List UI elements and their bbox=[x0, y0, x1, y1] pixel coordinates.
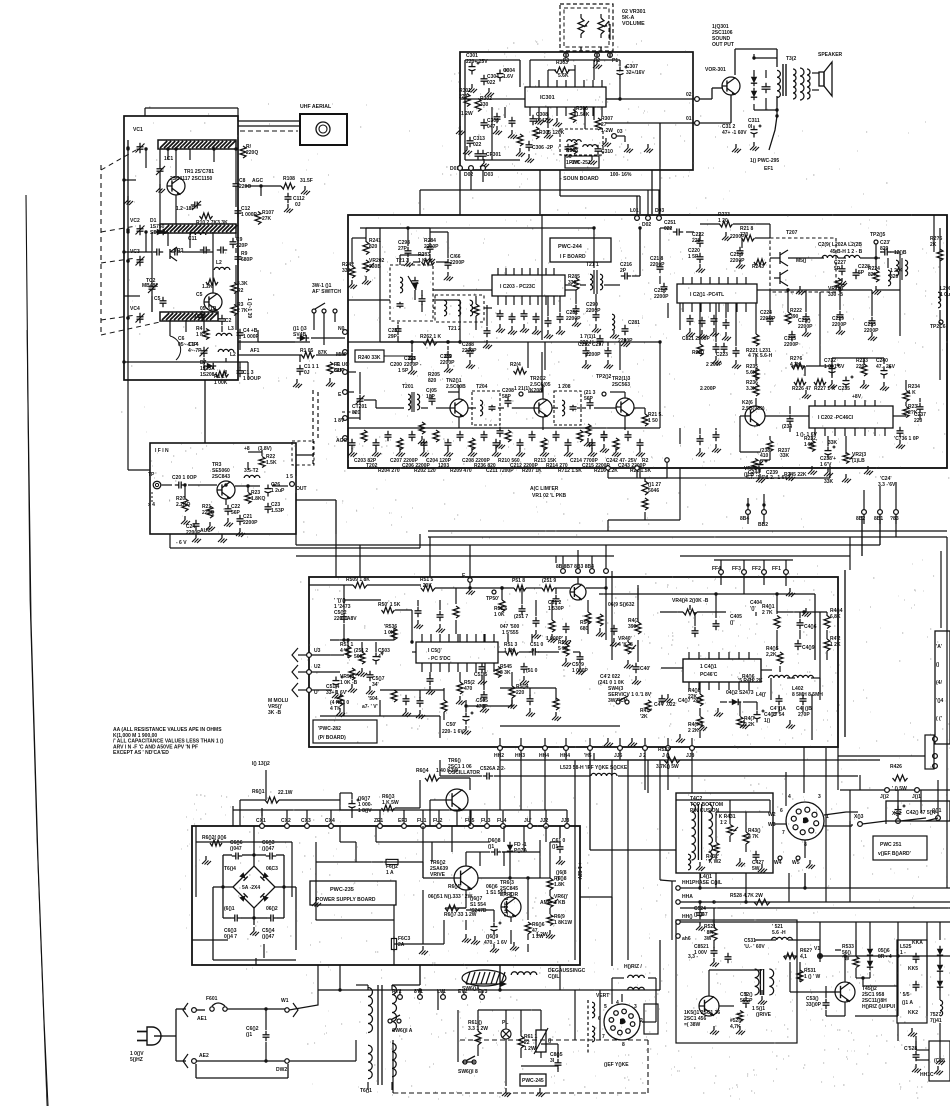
ground C312 bbox=[750, 142, 759, 151]
resistor R519 bbox=[542, 585, 554, 591]
resistor R548 filler bbox=[553, 698, 559, 710]
svg-text:R262 1 K: R262 1 K bbox=[420, 334, 442, 340]
resistor IF bias R213 bbox=[505, 430, 511, 442]
capacitor C228 5P bbox=[853, 269, 860, 279]
capacitor C548 filler bbox=[417, 697, 424, 707]
resistor IF bias R207 bbox=[433, 430, 439, 442]
wire F6C3 bbox=[393, 905, 395, 938]
svg-text:C297: C297 bbox=[592, 342, 604, 348]
svg-text:01: 01 bbox=[686, 116, 692, 122]
ground bottom area bbox=[536, 1088, 545, 1097]
node BY1 bbox=[418, 995, 423, 1000]
svg-text:AF1: AF1 bbox=[250, 348, 260, 354]
svg-text:T204: T204 bbox=[476, 384, 488, 390]
svg-text:I C202 -PC46Cl: I C202 -PC46Cl bbox=[818, 415, 854, 421]
svg-text:8B1: 8B1 bbox=[874, 516, 883, 522]
capacitor IF coupling C223 bbox=[625, 431, 632, 441]
resistor R533 560 1W bbox=[853, 957, 859, 968]
ground cluster sound-left bbox=[468, 84, 477, 93]
capacitor C286 filler bbox=[557, 313, 564, 323]
svg-text:1 00K: 1 00K bbox=[214, 380, 228, 386]
resistor R233b 220 bbox=[861, 364, 867, 376]
ground sound extra bbox=[525, 154, 534, 163]
svg-text:C306 -2P: C306 -2P bbox=[532, 145, 554, 151]
capacitor C230 2200P bbox=[803, 313, 810, 323]
svg-text:2200P: 2200P bbox=[730, 234, 745, 240]
svg-text:(6()1: (6()1 bbox=[224, 906, 235, 912]
svg-text:5()HZ: 5()HZ bbox=[130, 1057, 143, 1063]
svg-text:820: 820 bbox=[890, 274, 899, 280]
node JJ2 bbox=[544, 824, 549, 829]
transistor TR204 bbox=[745, 406, 765, 426]
socket yoke plug bbox=[786, 802, 824, 840]
capacitor C26 1.2uP bbox=[265, 484, 276, 497]
lamp PL bbox=[501, 1029, 511, 1039]
diode D608 01 bbox=[491, 849, 501, 856]
svg-text:1.6V: 1.6V bbox=[503, 74, 514, 80]
capacitor C544 filler bbox=[563, 623, 570, 633]
wire kk bus risers bbox=[897, 940, 899, 1016]
svg-text:1 208: 1 208 bbox=[558, 384, 571, 390]
svg-text:4,1: 4,1 bbox=[800, 954, 807, 960]
transformer T204 (dashed) bbox=[472, 391, 500, 425]
resistor IF bias R222 bbox=[613, 438, 619, 450]
svg-text:()1: ()1 bbox=[488, 844, 494, 850]
resistor R404 6.8K bbox=[824, 616, 830, 629]
ac plug bbox=[137, 1027, 163, 1045]
capacitor IF bypass C221 bbox=[601, 431, 608, 441]
svg-text:W1: W1 bbox=[281, 998, 289, 1004]
node FU1 bbox=[421, 824, 426, 829]
wire preamp bbox=[161, 484, 172, 486]
svg-text:()047: ()047 bbox=[230, 846, 242, 852]
node AGC2 bbox=[343, 436, 348, 441]
node HH3 bbox=[519, 746, 524, 751]
capacitor C501 220-16V bbox=[463, 712, 474, 725]
svg-text:P1: P1 bbox=[612, 58, 618, 64]
svg-text:KK2: KK2 bbox=[908, 1010, 918, 1016]
board outline kk box bbox=[897, 940, 927, 1023]
wire power right link bbox=[580, 896, 612, 898]
wire vert coil bbox=[592, 1002, 595, 1018]
resistor R23 1.8K bbox=[245, 493, 251, 504]
svg-text:TP: TP bbox=[148, 472, 155, 478]
svg-text:R523: R523 bbox=[658, 747, 670, 753]
svg-text:( (': ( (' bbox=[936, 716, 942, 722]
capacitor C237 220 bbox=[917, 403, 924, 413]
node D03 bbox=[481, 166, 486, 171]
capacitor C248 filler bbox=[733, 347, 740, 357]
node E mid bbox=[468, 578, 472, 582]
svg-text:C11: C11 bbox=[188, 236, 197, 242]
svg-text:06()2: 06()2 bbox=[266, 906, 278, 912]
svg-text:FU3: FU3 bbox=[481, 818, 491, 824]
svg-text:R305 120K: R305 120K bbox=[539, 130, 565, 136]
resistor R409 2.2K bbox=[697, 717, 703, 728]
svg-text:R1 05: R1 05 bbox=[300, 348, 314, 354]
resistor R511 4.7K bbox=[345, 646, 351, 658]
resistor R285 330 bbox=[573, 278, 579, 290]
capacitor IF bypass C218 bbox=[565, 439, 572, 449]
svg-text:.01: .01 bbox=[530, 648, 537, 654]
svg-text:2A: 2A bbox=[398, 942, 405, 948]
wire HH bus lines bbox=[680, 887, 950, 889]
potentiometer VR203 OLB bbox=[843, 453, 854, 464]
resistor R518 bbox=[514, 585, 526, 591]
svg-text:- SOUN BOARD: - SOUN BOARD bbox=[560, 176, 599, 182]
board outline pincushion box bbox=[676, 793, 773, 873]
resistor R2 3.3K bbox=[231, 283, 237, 294]
switch SW601B bbox=[463, 1056, 476, 1064]
svg-text:4 'K -8: 4 'K -8 bbox=[618, 642, 633, 648]
svg-text:C4()7 '247: C4()7 '247 bbox=[678, 698, 702, 704]
wire R523 run bbox=[594, 759, 664, 761]
wire right edge verticals bbox=[946, 215, 948, 468]
capacitor C505 470P bbox=[481, 691, 488, 701]
svg-text:33K: 33K bbox=[780, 453, 790, 459]
resistor R3 2.7K bbox=[231, 305, 237, 316]
svg-text:(): () bbox=[548, 1038, 552, 1044]
svg-text:3.3K: 3.3K bbox=[237, 281, 248, 287]
svg-text:58P: 58P bbox=[502, 394, 512, 400]
svg-text:AUC: AUC bbox=[200, 528, 211, 534]
transformer T201 bbox=[408, 394, 411, 410]
svg-text:1 5()1: 1 5()1 bbox=[752, 1006, 765, 1012]
svg-text:()()47: ()()47 bbox=[262, 846, 274, 852]
capacitor IF bypass C215 bbox=[529, 431, 536, 441]
node BB7 bbox=[576, 569, 581, 574]
node FU5 bbox=[469, 824, 474, 829]
capacitor C297 2200P bbox=[597, 335, 604, 345]
svg-text:EF1: EF1 bbox=[764, 166, 773, 172]
svg-text:AF' SWITCH: AF' SWITCH bbox=[312, 289, 341, 295]
resistor R523 3.7K 5W bbox=[664, 757, 680, 763]
svg-text:VOR-301: VOR-301 bbox=[705, 67, 726, 73]
svg-text:FF4: FF4 bbox=[712, 566, 721, 572]
svg-text:TP2()2: TP2()2 bbox=[596, 374, 612, 380]
node U3 bbox=[307, 653, 312, 658]
wire R426 area bbox=[840, 789, 950, 791]
capacitor C112 bbox=[285, 193, 292, 203]
svg-text:U3: U3 bbox=[314, 648, 321, 654]
svg-text:1 20: 1 20 bbox=[718, 218, 728, 224]
transistor TR502 horiz out bbox=[835, 982, 855, 1002]
capacitor C736 10P bbox=[897, 427, 904, 437]
capacitor C410B 270P bbox=[800, 695, 807, 705]
resistor R236 33K bbox=[753, 384, 759, 396]
svg-text:0J: 0J bbox=[304, 370, 310, 376]
resistor R241 820 bbox=[363, 242, 369, 255]
capacitor C303 047 bbox=[481, 119, 488, 129]
svg-text:820: 820 bbox=[369, 244, 378, 250]
wire SW-101 leads bbox=[313, 313, 315, 330]
ground socket bbox=[806, 860, 815, 869]
antenna terminal bbox=[316, 122, 330, 136]
ground bottom row bbox=[604, 738, 613, 747]
node W4 bbox=[778, 856, 782, 860]
wire right col bbox=[549, 842, 551, 878]
svg-text:220Q: 220Q bbox=[202, 510, 214, 516]
svg-text:1 8V: 1 8V bbox=[334, 418, 345, 424]
capacitor IF coupling C211 bbox=[481, 431, 488, 441]
board outline PWC-235 bbox=[192, 826, 580, 965]
node 03 bbox=[612, 134, 617, 139]
svg-text:06()5: 06()5 bbox=[428, 894, 440, 900]
ic IC501 pins bbox=[421, 663, 423, 672]
label board PWC-244 bbox=[550, 238, 611, 262]
capacitor C513 5P bbox=[521, 663, 528, 673]
node BB2r bbox=[862, 510, 867, 515]
transistor TR501 bbox=[699, 996, 719, 1016]
svg-text:1.50K: 1.50K bbox=[576, 112, 590, 118]
svg-text:0047: 0047 bbox=[536, 118, 547, 124]
svg-text:C2(9( L202A L2(2B: C2(9( L202A L2(2B bbox=[818, 242, 862, 248]
svg-text:C20 1 0OP: C20 1 0OP bbox=[172, 475, 197, 481]
resistor R227 1K bbox=[814, 379, 826, 385]
svg-text:C821 2200P: C821 2200P bbox=[682, 336, 710, 342]
svg-text:T21 3: T21 3 bbox=[396, 258, 409, 264]
svg-text:EXCEPT AS ' ND'CA'ED: EXCEPT AS ' ND'CA'ED bbox=[113, 750, 169, 756]
ic U202 (LC202 PC46CL) bbox=[809, 406, 893, 428]
resistor R604 140 K3W bbox=[425, 775, 439, 781]
node EV3 bbox=[480, 995, 485, 1000]
wire gap horiz runs bbox=[296, 555, 556, 557]
svg-text:R6()5: R6()5 bbox=[448, 884, 461, 890]
wire 02 to Q301 bbox=[606, 98, 695, 100]
svg-text:AGC: AGC bbox=[252, 178, 264, 184]
svg-text:1 K 5W: 1 K 5W bbox=[382, 800, 399, 806]
capacitor C293 2200P bbox=[409, 353, 416, 363]
potentiometer VR601 1KB bbox=[547, 897, 558, 908]
capacitor C520 56CP bbox=[743, 997, 750, 1007]
coil L401 phase bbox=[688, 854, 691, 870]
ground power extra bbox=[312, 898, 321, 907]
svg-text:R303: R303 bbox=[556, 60, 568, 66]
svg-text:()RIVE: ()RIVE bbox=[756, 1012, 772, 1018]
svg-text:U2: U2 bbox=[314, 664, 321, 670]
svg-text:()1 A: ()1 A bbox=[902, 1000, 913, 1006]
fet Q201 in T207 bbox=[774, 250, 788, 266]
wire tuner bottom exit bbox=[124, 361, 248, 363]
wire deflection links bbox=[785, 772, 787, 793]
coil L200 bbox=[938, 292, 941, 308]
resistor R262 1K bbox=[423, 339, 437, 345]
test point TP bbox=[153, 481, 161, 489]
ic IC301 pin stubs bbox=[529, 107, 531, 116]
svg-text:390: 390 bbox=[790, 314, 799, 320]
junction dots bottomright bbox=[818, 954, 821, 957]
wire limiter bbox=[607, 470, 609, 478]
node 01 bbox=[695, 121, 700, 126]
capacitor D609 470-16V bbox=[491, 922, 502, 935]
diode FD-1 R07A bbox=[507, 842, 513, 854]
svg-text:OSCILLATOR: OSCILLATOR bbox=[448, 770, 480, 776]
svg-text:1 000P: 1 000P bbox=[243, 334, 260, 340]
transformer T503 drive bbox=[755, 969, 774, 995]
potentiometer R431 bbox=[727, 825, 738, 836]
svg-text:2200P: 2200P bbox=[730, 258, 745, 264]
svg-text:()EF Y()KE: ()EF Y()KE bbox=[604, 1062, 629, 1068]
svg-text:M5(): M5() bbox=[796, 258, 807, 264]
capacitor tuner filler1 bbox=[153, 249, 163, 256]
ground IF strip row bbox=[348, 448, 357, 457]
svg-text:(P/ BOARD): (P/ BOARD) bbox=[318, 735, 346, 741]
capacitor C290 2200P bbox=[593, 311, 600, 321]
wire yoke socket bbox=[621, 994, 623, 1002]
fuse F602 1A bbox=[384, 859, 400, 864]
ground C521 bbox=[710, 958, 719, 967]
svg-text:1.2~18P: 1.2~18P bbox=[176, 206, 195, 212]
ground top-left bbox=[404, 258, 413, 267]
capacitor C282 2200P bbox=[573, 305, 580, 315]
label board PWC-235 bbox=[310, 881, 396, 905]
resistor R303 5.6K bbox=[555, 67, 570, 73]
transformer T601 core bbox=[377, 985, 379, 1085]
wire power interior2 bbox=[228, 841, 292, 843]
svg-text:CX1: CX1 bbox=[256, 818, 266, 824]
resistor R234 1K bbox=[903, 391, 909, 402]
capacitor C14 4-7P bbox=[200, 347, 209, 357]
node CX3 bbox=[305, 824, 310, 829]
capacitor C296 filler bbox=[545, 317, 552, 327]
label PWC-245 bbox=[520, 1074, 546, 1086]
capacitor IF bypass C200 bbox=[349, 439, 356, 449]
capacitor C311 bbox=[762, 83, 771, 93]
ganged tuning dashes bbox=[100, 165, 102, 335]
wire right connectors bbox=[863, 490, 865, 510]
svg-text:R6()4: R6()4 bbox=[416, 768, 429, 774]
capacitor C512 1530P bbox=[553, 595, 560, 605]
svg-text:H()RIZ /: H()RIZ / bbox=[624, 964, 642, 970]
ic U403 (IC401 PC46C) bbox=[683, 659, 761, 682]
svg-text:J()2: J()2 bbox=[880, 794, 889, 800]
svg-text:8B'8B7 8B3 8B4: 8B'8B7 8B3 8B4 bbox=[556, 564, 594, 570]
svg-text:FF1: FF1 bbox=[772, 566, 781, 572]
coil L527 bbox=[940, 1000, 943, 1016]
wire far right column bbox=[946, 537, 948, 888]
transformer T213 (dashed) bbox=[390, 265, 433, 321]
svg-text:R209 470: R209 470 bbox=[450, 468, 472, 474]
capacitor C1 bbox=[199, 311, 206, 321]
ground C112 bbox=[284, 204, 293, 213]
capacitor IF coupling C220 bbox=[589, 439, 596, 449]
capacitor C210 filler bbox=[601, 431, 608, 441]
capacitor C225 2200P bbox=[789, 331, 796, 341]
svg-text:1(): 1() bbox=[764, 718, 770, 724]
svg-text:W4: W4 bbox=[774, 860, 782, 866]
svg-text:I F BOARD: I F BOARD bbox=[560, 254, 586, 260]
potentiometer VR301 section B bbox=[598, 14, 610, 40]
capacitor C292 filler bbox=[583, 347, 590, 357]
capacitor IF coupling C208 bbox=[445, 439, 452, 449]
svg-text:470: 470 bbox=[464, 686, 473, 692]
resistor R401 2.7K bbox=[774, 616, 780, 629]
ic LC202 pins bbox=[814, 428, 816, 436]
wire mid top rails bbox=[309, 584, 353, 586]
svg-text:C292: C292 bbox=[578, 342, 590, 348]
svg-text:1 0K -B: 1 0K -B bbox=[340, 680, 358, 686]
transformer T212 (dashed) bbox=[435, 295, 484, 322]
svg-text:'U.- ' 60V: 'U.- ' 60V bbox=[744, 944, 765, 950]
board outline right edge box bbox=[935, 631, 950, 744]
svg-text:1 K: 1 K bbox=[196, 332, 204, 338]
capacitor C234 bbox=[787, 415, 794, 425]
svg-text:R2: R2 bbox=[237, 288, 244, 294]
capacitor C606 0047 bbox=[232, 853, 242, 860]
svg-text:C5: C5 bbox=[154, 296, 161, 302]
wire AGC feed bbox=[245, 185, 281, 187]
svg-text:1 5P: 1 5P bbox=[688, 254, 699, 260]
wire mid right rails bbox=[605, 588, 607, 640]
capacitor T213 pad bbox=[412, 277, 419, 287]
svg-text:5046: 5046 bbox=[648, 488, 659, 494]
capacitor C515 bbox=[479, 663, 486, 673]
svg-text:R240 33K: R240 33K bbox=[358, 355, 381, 361]
transistor TR3 small bbox=[170, 247, 177, 261]
resistor R611 22 1.2W bbox=[518, 1036, 524, 1048]
svg-text:FU4: FU4 bbox=[497, 818, 507, 824]
svg-text:H()RIZ ()UIPUI: H()RIZ ()UIPUI bbox=[862, 1004, 896, 1010]
resistor R244 filler bbox=[514, 368, 527, 374]
svg-text:2200P: 2200P bbox=[784, 342, 799, 348]
capacitor C524 0.047 bbox=[697, 909, 704, 919]
svg-text:'C736 1 0P: 'C736 1 0P bbox=[894, 436, 919, 442]
transformer T208r bbox=[896, 260, 899, 276]
svg-text:3: 3 bbox=[818, 794, 821, 800]
svg-text:2.5B(?39): 2.5B(?39) bbox=[742, 406, 765, 412]
svg-text:()1: ()1 bbox=[552, 844, 558, 850]
capacitor C21 2200P bbox=[237, 515, 244, 525]
board outline bottom right box bbox=[929, 1041, 950, 1081]
svg-text:5P: 5P bbox=[834, 266, 841, 272]
ground lower-right row bbox=[756, 474, 765, 483]
svg-text:HH4: HH4 bbox=[560, 753, 570, 759]
wire bottom right cluster bbox=[477, 1010, 479, 1031]
thermistor TH601 bbox=[536, 1030, 546, 1052]
capacitor C287 29P bbox=[395, 325, 402, 335]
resistor R541 680 bbox=[585, 612, 591, 624]
resistor R610 3.3 12W bbox=[475, 1031, 481, 1045]
resistor R430 4.7K bbox=[743, 832, 749, 844]
degaussing coil bbox=[511, 972, 537, 975]
svg-text:VERT: VERT bbox=[596, 993, 609, 999]
svg-text:PHASE C()IL: PHASE C()IL bbox=[692, 880, 722, 886]
wire topleft rails bbox=[351, 238, 353, 264]
resistor R432 1K W2 bbox=[713, 843, 719, 854]
svg-text:45 B-H 1 2 - B: 45 B-H 1 2 - B bbox=[830, 249, 863, 255]
inductor L1 (hatched) bbox=[158, 140, 236, 149]
svg-text:1 2K: 1 2K bbox=[830, 642, 841, 648]
svg-text:(3.8V): (3.8V) bbox=[258, 446, 272, 452]
svg-text:7: 7 bbox=[782, 830, 785, 836]
svg-text:1 K: 1 K bbox=[418, 258, 426, 264]
svg-text:2200P: 2200P bbox=[450, 260, 465, 266]
mixer coil 3.5T bbox=[244, 475, 260, 478]
wire U stubs bbox=[298, 654, 307, 656]
resistor R215 150 bbox=[642, 414, 648, 426]
capacitor row under LC203 bbox=[497, 310, 504, 320]
resistor R502 470 bbox=[457, 682, 463, 694]
wire sound lower bus bbox=[420, 189, 660, 191]
ground AGC row bbox=[408, 366, 417, 375]
svg-text:1.53P: 1.53P bbox=[271, 508, 285, 514]
svg-text:TP50': TP50' bbox=[486, 596, 499, 602]
node ah6 bbox=[676, 934, 680, 938]
svg-text:22.1W: 22.1W bbox=[278, 790, 293, 796]
wire VC rail bbox=[127, 140, 129, 330]
svg-text:R220: R220 bbox=[692, 350, 704, 356]
wire sound-left rails bbox=[464, 60, 466, 160]
